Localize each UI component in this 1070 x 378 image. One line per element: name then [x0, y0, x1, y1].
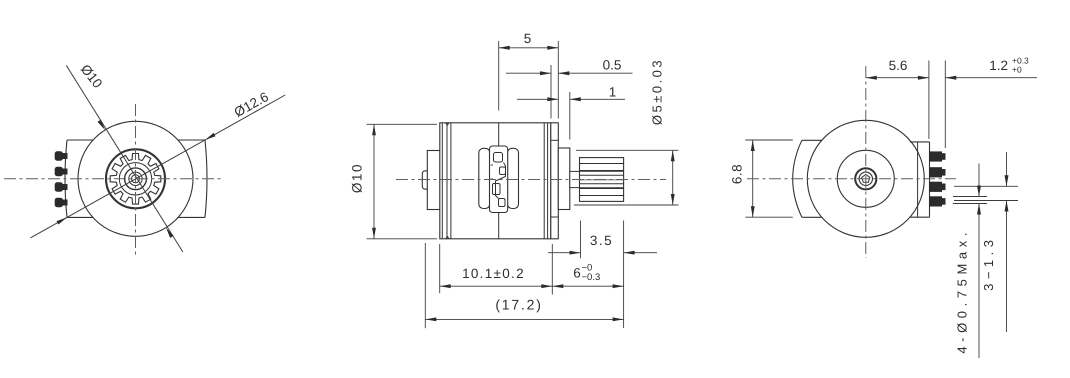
- svg-text:Ø10: Ø10: [350, 163, 365, 193]
- svg-text:6: 6: [573, 266, 581, 281]
- svg-text:+0: +0: [1012, 65, 1022, 75]
- svg-text:−0.3: −0.3: [582, 272, 601, 283]
- svg-text:Ø12.6: Ø12.6: [232, 89, 271, 120]
- svg-text:(17.2): (17.2): [495, 297, 542, 313]
- svg-text:Ø10: Ø10: [78, 62, 106, 91]
- svg-text:Ø5±0.03: Ø5±0.03: [650, 58, 665, 125]
- svg-text:6.8: 6.8: [730, 164, 745, 184]
- svg-text:5.6: 5.6: [889, 58, 908, 73]
- svg-text:10.1±0.2: 10.1±0.2: [462, 266, 525, 281]
- svg-text:3−1.3: 3−1.3: [981, 235, 996, 290]
- svg-text:0.5: 0.5: [603, 58, 622, 73]
- svg-text:4-Ø0.75Max.: 4-Ø0.75Max.: [955, 228, 970, 354]
- svg-text:3.5: 3.5: [590, 233, 613, 248]
- svg-text:1: 1: [609, 85, 617, 100]
- svg-text:1.2: 1.2: [989, 58, 1008, 73]
- svg-text:5: 5: [524, 31, 532, 46]
